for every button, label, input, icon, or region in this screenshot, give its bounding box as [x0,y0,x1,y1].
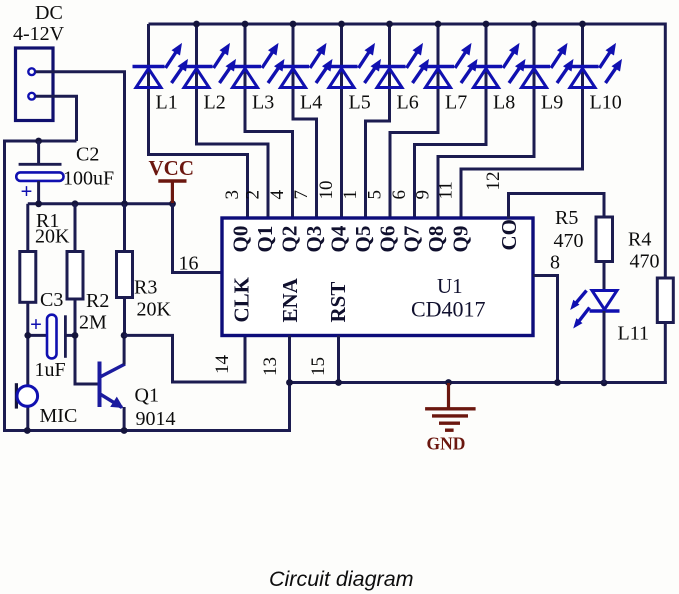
wire L1 anode to pin 3 [149,24,248,219]
svg-text:MIC: MIC [40,405,78,427]
LED L11 [590,291,620,312]
svg-text:9014: 9014 [136,408,176,430]
node collector R3 junction [121,332,128,339]
svg-text:470: 470 [554,230,584,252]
wire L2 anode to pin 2 [197,24,269,219]
svg-text:13: 13 [260,357,281,376]
LED L10 [567,67,599,88]
node junction L3 top rail [242,21,249,28]
svg-text:L4: L4 [300,92,322,114]
Q1 base bar [98,362,102,408]
wire L7 anode to pin 5 [390,24,438,219]
wire riser to ground rail [288,383,291,433]
wire L9 anode to pin 9 [438,24,534,219]
svg-text:GND: GND [427,434,466,454]
L11 light arrows [570,291,586,311]
node C2 bottom junction [35,200,42,207]
LED L1 [133,67,165,88]
wire R3 top lead [123,204,126,252]
svg-text:Q1: Q1 [135,385,159,407]
node junction L9 top rail [531,21,538,28]
wire C3 right lead [65,334,75,337]
wire R2 top lead [74,204,77,252]
node emitter junction [121,427,128,434]
svg-text:L3: L3 [252,92,274,114]
svg-text:16: 16 [179,253,199,275]
svg-text:20K: 20K [35,226,70,248]
svg-text:Q0: Q0 [229,226,253,253]
svg-text:5: 5 [365,190,386,200]
L8 light arrows [503,43,520,68]
node junction L4 top rail [290,21,297,28]
svg-text:+: + [21,179,33,203]
wire L4 anode to pin 7 [293,24,317,219]
svg-text:Q3: Q3 [302,226,326,253]
L4 light arrows [310,43,327,68]
wire L6 anode to pin 1 [366,24,390,219]
wire bottom-left ground rail [3,429,291,432]
wire Q1 collector [123,335,126,364]
LED L5 [326,67,358,88]
svg-text:Q8: Q8 [424,226,448,253]
resistor R5 470 [596,217,613,262]
wire R1 top lead [26,204,29,252]
svg-text:Q5: Q5 [351,226,375,253]
svg-text:7: 7 [291,190,312,200]
node ENA ground junction [286,379,293,386]
wire L8 anode to pin 6 [415,24,487,219]
L7 light arrows [455,43,472,68]
svg-text:L6: L6 [397,92,419,114]
wire R5 to L11 [603,262,606,292]
wire L3 anode to pin 4 [245,24,293,219]
node junction L6 top rail [386,21,393,28]
L6 light arrows [407,43,424,68]
node junction L2 top rail [193,21,200,28]
svg-text:6: 6 [389,190,410,200]
svg-text:Q4: Q4 [326,225,350,252]
wire top positive rail [149,23,666,26]
wire RST pin 15 stub [337,336,340,383]
resistor R3 20K [117,252,133,298]
svg-text:R2: R2 [86,290,109,312]
svg-text:DC: DC [35,2,63,24]
resistor R2 2M [67,252,83,300]
node C3 left junction [24,332,31,339]
svg-text:Q9: Q9 [449,226,473,253]
wire left rail [3,140,6,433]
node L11 ground junction [601,379,608,386]
node GND junction [445,379,452,386]
svg-text:R5: R5 [555,207,578,229]
wire pin 12 CO to R5 [509,194,605,219]
svg-text:1: 1 [340,190,361,200]
wire MIC leads [26,386,29,432]
wire C3 left lead [27,334,48,337]
svg-text:+: + [30,312,42,336]
node C2 top junction [35,138,42,145]
svg-text:470: 470 [630,251,660,273]
LED L8 [470,67,502,88]
node junction L5 top rail [338,21,345,28]
connector DC jack J1 [16,48,54,121]
wire C2 top lead [37,141,40,164]
resistor R1 20K [20,252,36,303]
LED L3 [229,67,261,88]
C3 right plate [64,315,67,358]
L2 light arrows [214,43,231,68]
wire negative rail top [5,140,77,143]
wire R4 bottom lead [664,323,667,385]
wire Q1 emitter [123,407,126,432]
wire pin 8 to ground [533,276,558,383]
wire L5 anode to pin 10 [340,24,343,219]
svg-text:2M: 2M [79,312,107,334]
svg-text:C3: C3 [40,289,63,311]
L1 light arrows [166,43,183,68]
svg-text:100uF: 100uF [63,168,114,190]
svg-text:CO: CO [497,219,521,251]
Q1 emitter arrowhead [110,397,123,408]
svg-text:U1: U1 [437,274,463,298]
resistor R4 470 [657,278,673,323]
svg-text:14: 14 [212,355,233,375]
wire collector to CLK pin 14 [124,335,245,382]
svg-text:R4: R4 [628,229,651,251]
L9 light arrows [551,43,568,68]
wire right rail to R4 [664,23,667,279]
wire DC+ to VCC rail [36,72,125,204]
svg-text:L10: L10 [590,92,622,114]
svg-text:VCC: VCC [149,156,195,180]
svg-text:Q1: Q1 [253,226,277,253]
svg-text:11: 11 [436,181,457,199]
svg-text:L9: L9 [541,92,563,114]
node junction L10 top rail [579,21,586,28]
svg-text:8: 8 [550,252,560,274]
wire VCC rail [28,202,173,205]
svg-text:Q6: Q6 [375,226,399,253]
svg-text:4-12V: 4-12V [13,23,65,45]
svg-text:20K: 20K [137,299,172,321]
svg-text:C2: C2 [76,144,99,166]
wire L11 cathode to ground [603,311,606,383]
node R2 top junction [72,200,79,207]
node pin8 ground junction [554,379,561,386]
node VCC junction [169,200,176,207]
L3 light arrows [262,43,279,68]
wire R2 bottom to Q1 base [75,299,99,384]
svg-text:L1: L1 [156,92,178,114]
svg-text:CD4017: CD4017 [411,297,486,322]
LED L2 [181,67,213,88]
svg-text:Circuit diagram: Circuit diagram [269,567,414,591]
node R3 top junction [121,200,128,207]
svg-text:L2: L2 [204,92,226,114]
svg-text:1uF: 1uF [35,359,66,381]
svg-text:3: 3 [222,190,243,200]
L5 light arrows [359,43,376,68]
svg-text:L7: L7 [445,92,467,114]
L10 light arrows [600,43,617,68]
wire DC- to ground rail [36,96,77,141]
power VCC symbol [158,181,186,203]
wire R3 bottom lead [123,298,126,336]
wire VCC to pin 16 [173,204,223,273]
J1 pin 1 circle [28,68,35,75]
ground GND symbol [425,383,476,430]
LED L9 [518,67,550,88]
Q1 emitter diagonal [100,394,122,408]
svg-text:4: 4 [267,190,288,200]
svg-text:10: 10 [316,181,337,200]
wire C2 bottom lead [37,181,40,204]
svg-text:L5: L5 [349,92,371,114]
svg-text:9: 9 [413,190,434,200]
Q1 collector diagonal [100,364,125,377]
svg-text:L8: L8 [493,92,515,114]
svg-text:CLK: CLK [230,276,254,322]
wire R1 to MIC / C3 node [26,302,29,386]
svg-text:Q7: Q7 [400,226,424,253]
svg-text:R3: R3 [134,277,157,299]
node RST ground junction [335,379,342,386]
op-amp U1 CD4017 IC body [222,218,533,336]
LED L7 [422,67,454,88]
svg-text:2: 2 [243,190,264,200]
svg-text:12: 12 [483,172,504,191]
wire main ground rail [290,381,667,384]
node MIC bottom junction [24,427,31,434]
node C3 right junction [72,332,79,339]
LED L4 [277,67,309,88]
C2 top plate [19,163,62,166]
svg-text:L11: L11 [618,323,649,345]
LED L6 [374,67,406,88]
node junction L7 top rail [435,21,442,28]
svg-text:15: 15 [308,357,329,376]
node junction L8 top rail [483,21,490,28]
J1 pin 2 circle [28,93,35,100]
svg-text:ENA: ENA [278,277,302,322]
wire L10 anode to pin 11 [461,24,583,219]
svg-text:RST: RST [326,282,350,323]
svg-text:Q2: Q2 [277,226,301,253]
wire ENA pin 13 stub [288,336,291,383]
